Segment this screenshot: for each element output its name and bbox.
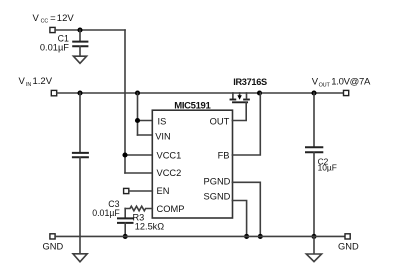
wire FB pin up to Vout <box>232 93 260 155</box>
node GND left terminal square <box>50 234 55 239</box>
transistor Q1 IR3716S <box>231 93 249 102</box>
wire C2 dot to ground symbol <box>313 236 315 253</box>
node Vcc terminal square <box>50 27 55 32</box>
node Vin terminal square <box>51 90 56 95</box>
wire VCC2 pin <box>125 172 152 174</box>
junction dot C3/ground rail <box>123 234 128 239</box>
junction dot C2 tap <box>311 90 316 95</box>
svg-text:PGND: PGND <box>204 176 231 186</box>
junction dot IS <box>135 118 140 123</box>
capacitor C3 <box>118 209 133 237</box>
svg-text:VCC=12V: VCC=12V <box>33 13 75 25</box>
svg-text:FB: FB <box>218 150 230 160</box>
node EN terminal square <box>124 188 129 193</box>
svg-text:10µF: 10µF <box>318 163 337 173</box>
svg-text:VOUT1.0V@7A: VOUT1.0V@7A <box>312 77 371 89</box>
svg-text:SGND: SGND <box>204 192 231 202</box>
capacitor C1 <box>73 30 87 56</box>
svg-text:VCC2: VCC2 <box>157 168 182 178</box>
junction dot C2/ground rail <box>311 234 316 239</box>
wire EN pin <box>129 190 153 192</box>
wire PGND pin down to ground rail <box>232 182 260 236</box>
svg-text:VCC1: VCC1 <box>157 150 182 160</box>
svg-text:MIC5191: MIC5191 <box>174 101 211 112</box>
svg-text:EN: EN <box>157 186 170 196</box>
wire VIN pin <box>138 134 153 136</box>
svg-text:0.01µF: 0.01µF <box>92 208 120 218</box>
svg-text:COMP: COMP <box>157 204 185 214</box>
op-amp U1 MIC5191 box <box>152 110 232 218</box>
node Vout terminal square <box>344 90 349 95</box>
svg-text:IS: IS <box>158 116 167 126</box>
junction dot FB tap <box>257 90 262 95</box>
wire IS pin <box>138 120 153 122</box>
node GND right terminal square <box>345 234 350 239</box>
junction dot VCC1 <box>122 152 127 157</box>
ground bottom-left <box>73 254 87 262</box>
wire Vin rail <box>57 92 344 94</box>
svg-text:GND: GND <box>43 241 64 251</box>
wire VCC1 pin <box>125 154 152 156</box>
capacitor input (unlabeled) <box>73 93 88 254</box>
junction dot IS/VIN branch <box>135 90 140 95</box>
wire Vcc vertical down to VCC1/VCC2 <box>124 30 126 173</box>
svg-text:GND: GND <box>338 241 359 251</box>
resistor R3 <box>125 206 152 211</box>
wire Vcc horizontal <box>55 29 125 31</box>
wire gate to OUT pin <box>232 103 246 121</box>
junction dot Vcc/C1 <box>77 27 82 32</box>
svg-text:OUT: OUT <box>210 116 230 126</box>
svg-text:12.5kΩ: 12.5kΩ <box>135 222 164 232</box>
svg-text:VIN: VIN <box>155 131 171 141</box>
wire ground rail <box>55 235 345 237</box>
svg-text:VIN1.2V: VIN1.2V <box>19 76 53 88</box>
wire IS/VIN branch vertical <box>137 93 139 135</box>
ground below C1 <box>73 56 86 63</box>
svg-text:0.01µF: 0.01µF <box>40 43 69 53</box>
junction dot PGND <box>258 234 263 239</box>
ground bottom-right <box>306 254 321 262</box>
capacitor C2 <box>306 93 322 236</box>
junction dot SGND <box>244 234 249 239</box>
svg-text:IR3716S: IR3716S <box>233 77 267 87</box>
wire SGND pin down to ground rail <box>232 201 246 237</box>
junction dot input cap <box>77 90 82 95</box>
